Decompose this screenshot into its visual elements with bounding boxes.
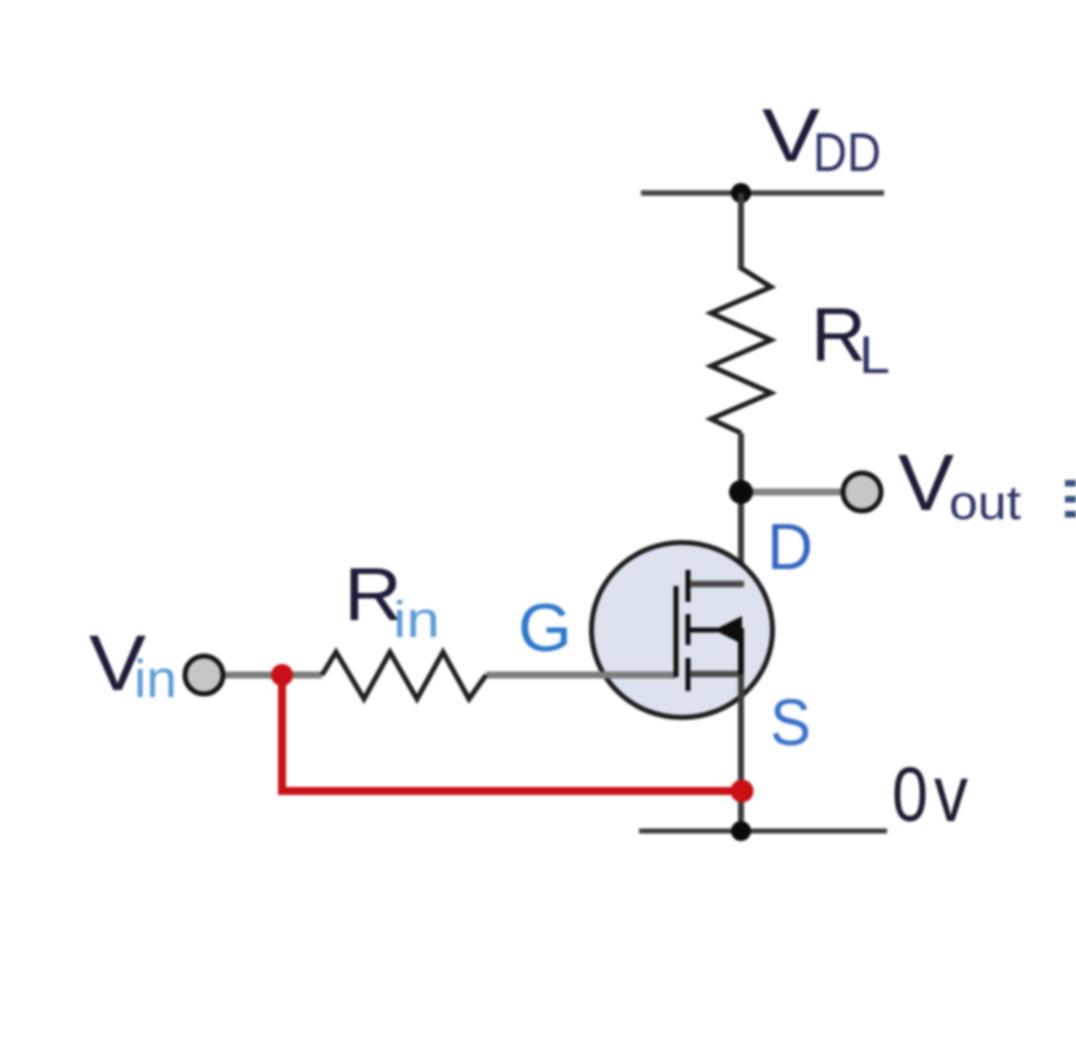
svg-text:D: D — [767, 510, 813, 583]
svg-text:S: S — [770, 685, 811, 759]
svg-text:L: L — [859, 326, 890, 385]
svg-text:V: V — [898, 438, 955, 527]
svg-text:v: v — [934, 749, 968, 838]
svg-text:V: V — [762, 93, 820, 177]
svg-text:DD: DD — [813, 121, 881, 183]
svg-text:in: in — [134, 650, 177, 709]
svg-text:G: G — [518, 590, 572, 666]
svg-text:R: R — [811, 293, 866, 378]
svg-text:in: in — [393, 591, 440, 648]
svg-text:0: 0 — [892, 752, 928, 838]
svg-text:out: out — [949, 477, 1021, 530]
